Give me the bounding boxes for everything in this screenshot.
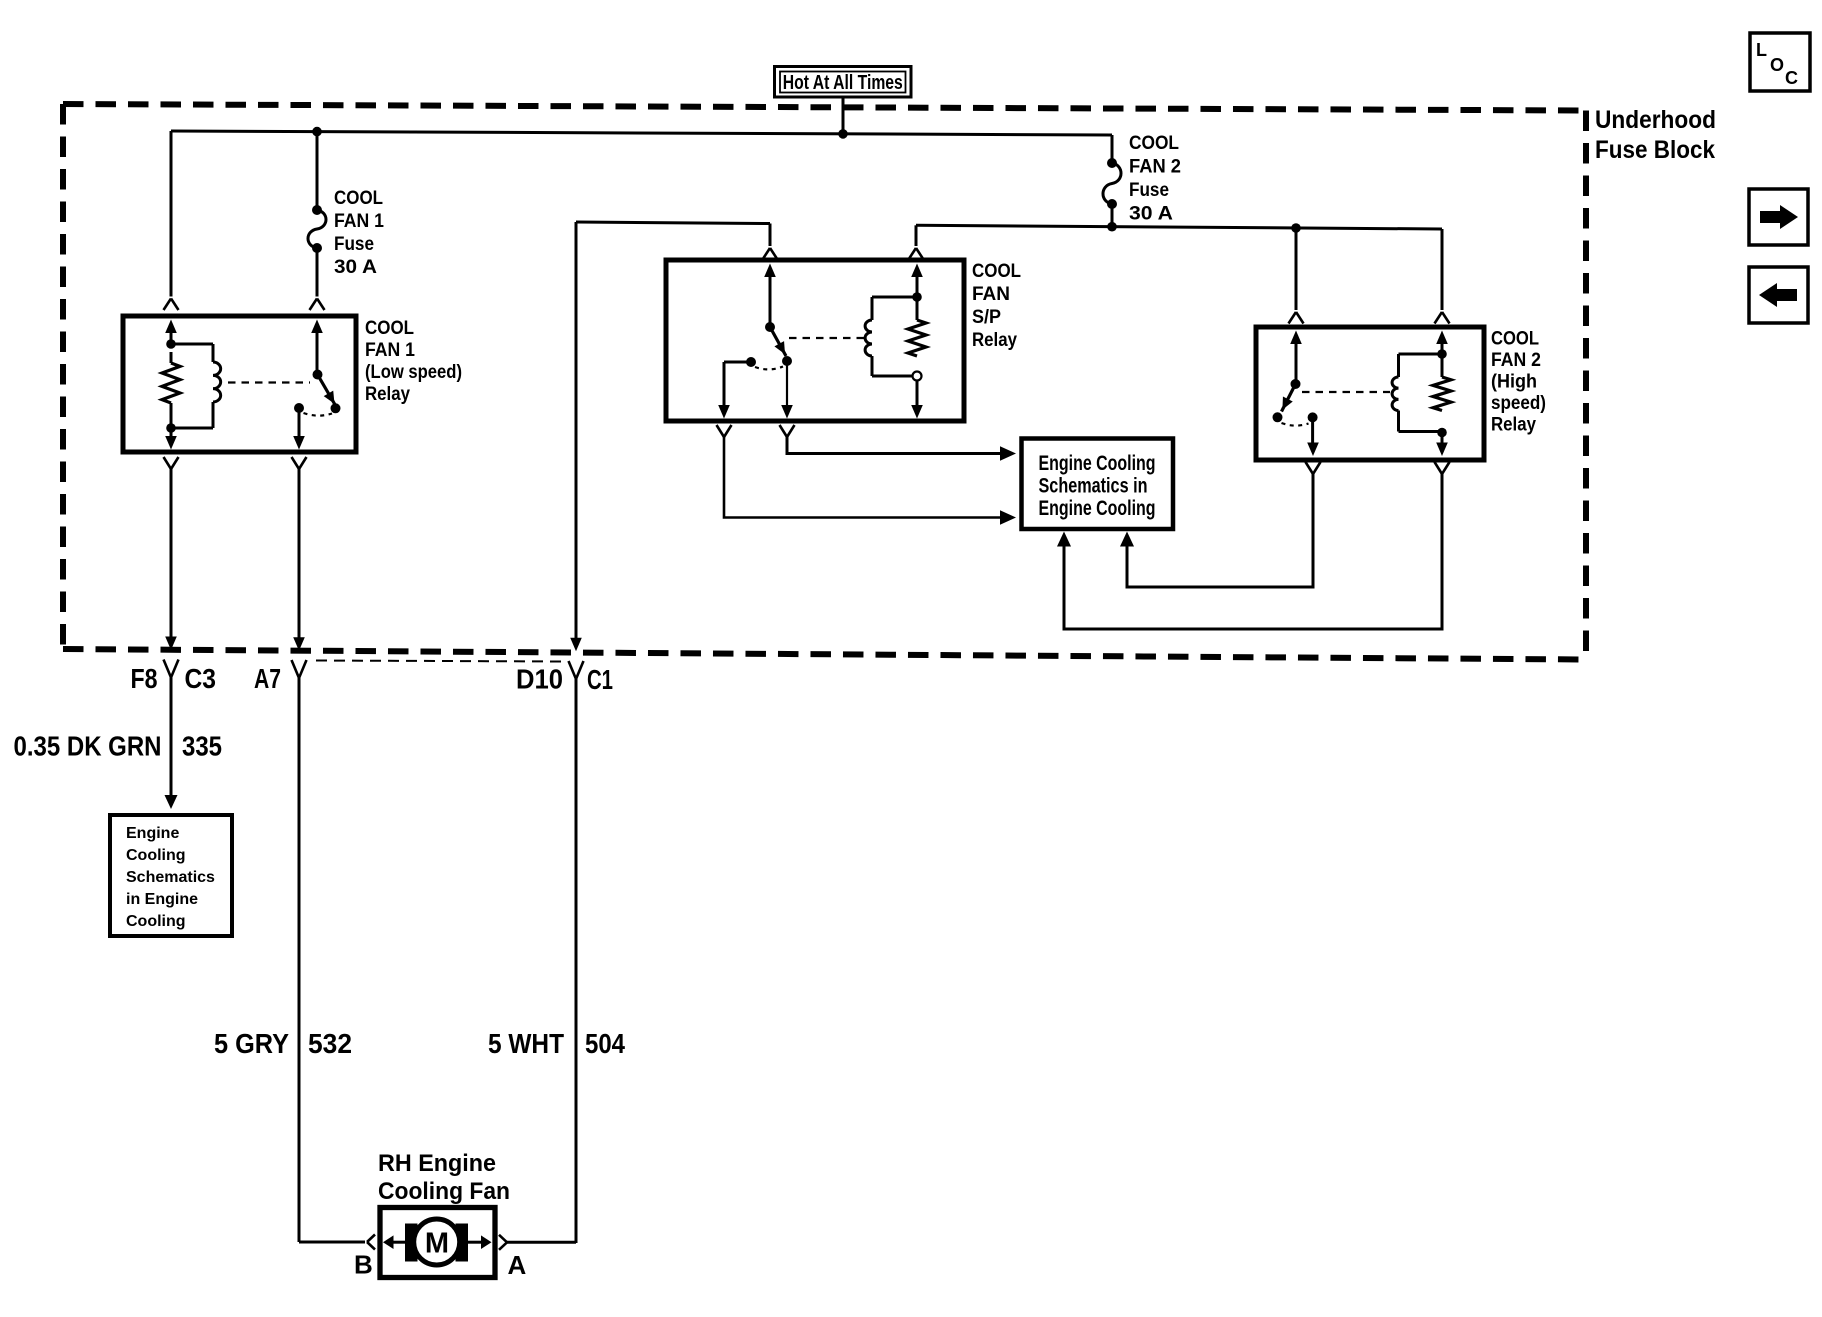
svg-text:in Engine: in Engine <box>126 891 198 908</box>
svg-text:RH Engine: RH Engine <box>378 1150 496 1177</box>
svg-text:Fuse: Fuse <box>1129 180 1169 201</box>
svg-text:C: C <box>1785 68 1798 88</box>
svg-text:speed): speed) <box>1491 393 1546 414</box>
svg-text:Relay: Relay <box>1491 415 1536 436</box>
svg-text:FAN 2: FAN 2 <box>1491 350 1541 371</box>
svg-text:Cooling: Cooling <box>126 913 186 930</box>
svg-text:FAN 1: FAN 1 <box>365 340 415 361</box>
svg-text:Cooling: Cooling <box>126 847 186 864</box>
svg-text:Relay: Relay <box>365 384 410 405</box>
svg-text:Fuse Block: Fuse Block <box>1595 136 1715 164</box>
svg-text:FAN: FAN <box>972 284 1010 305</box>
svg-text:0.35 DK GRN: 0.35 DK GRN <box>14 731 162 762</box>
svg-text:FAN 1: FAN 1 <box>334 211 384 232</box>
svg-text:COOL: COOL <box>1129 133 1179 154</box>
svg-text:L: L <box>1756 40 1767 60</box>
svg-text:Underhood: Underhood <box>1595 106 1716 134</box>
svg-text:Cooling Fan: Cooling Fan <box>378 1178 510 1205</box>
svg-text:Schematics: Schematics <box>126 869 215 886</box>
svg-text:M: M <box>425 1228 449 1260</box>
svg-text:COOL: COOL <box>1491 329 1539 350</box>
svg-text:C1: C1 <box>587 664 613 695</box>
svg-text:S/P: S/P <box>972 307 1001 328</box>
svg-text:C3: C3 <box>185 663 217 694</box>
svg-text:Engine Cooling: Engine Cooling <box>1039 497 1156 520</box>
svg-text:(High: (High <box>1491 372 1537 393</box>
svg-text:335: 335 <box>182 731 222 762</box>
svg-text:O: O <box>1770 55 1784 75</box>
svg-text:A: A <box>508 1250 527 1280</box>
svg-text:COOL: COOL <box>365 318 414 339</box>
svg-text:D10: D10 <box>516 664 563 695</box>
svg-text:Fuse: Fuse <box>334 234 374 255</box>
svg-text:532: 532 <box>308 1028 352 1059</box>
svg-text:Engine: Engine <box>126 825 179 842</box>
svg-text:(Low speed): (Low speed) <box>365 362 462 383</box>
svg-text:FAN 2: FAN 2 <box>1129 157 1181 178</box>
svg-text:30 A: 30 A <box>1129 204 1173 225</box>
svg-text:Engine Cooling: Engine Cooling <box>1039 452 1156 475</box>
svg-text:Hot At All Times: Hot At All Times <box>783 72 903 94</box>
svg-text:5 WHT: 5 WHT <box>488 1028 564 1059</box>
svg-text:B: B <box>354 1250 373 1280</box>
svg-text:F8: F8 <box>131 663 158 694</box>
svg-text:A7: A7 <box>254 663 281 694</box>
svg-text:Relay: Relay <box>972 330 1017 351</box>
svg-text:504: 504 <box>585 1028 625 1059</box>
svg-text:30 A: 30 A <box>334 257 377 278</box>
svg-text:COOL: COOL <box>334 188 383 209</box>
svg-text:5 GRY: 5 GRY <box>214 1028 289 1059</box>
svg-text:COOL: COOL <box>972 261 1021 282</box>
svg-text:Schematics in: Schematics in <box>1039 475 1148 498</box>
